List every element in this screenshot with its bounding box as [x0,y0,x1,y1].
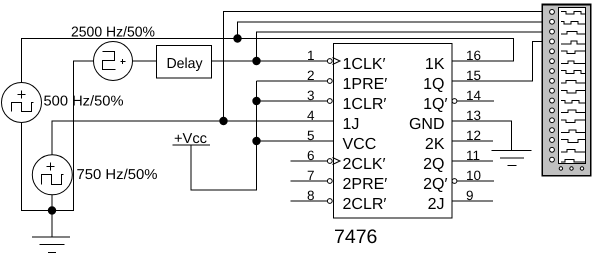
svg-text:2Q: 2Q [423,156,444,173]
svg-text:5: 5 [307,128,315,143]
delay block A1 [157,46,212,79]
svg-text:2: 2 [307,68,315,83]
trace ch7 [561,71,585,74]
analyzer terminal ch3 [550,29,555,34]
svg-text:1CLR′: 1CLR′ [343,96,387,113]
Vcc bar [173,144,211,146]
wire ch2 stub [238,22,542,39]
svg-text:7476: 7476 [334,226,377,248]
svg-text:16: 16 [466,48,481,63]
logic analyzer U2 [542,5,591,176]
wire bus 750/1J to ch1 [224,12,542,122]
trace ch3 [561,31,585,34]
analyzer terminal ch2 [550,19,555,24]
analyzer terminal ch6 [550,59,555,64]
pin numbers [307,48,482,203]
bubble pin8 [327,199,332,204]
svg-text:VCC: VCC [343,136,377,153]
analyzer clock terminal 2 [570,167,573,170]
node dot A (net1/ch2) [233,34,241,42]
bubble pin1 [327,59,332,64]
trace ch5 [561,51,585,54]
trace ch10 [561,100,585,103]
svg-text:9: 9 [466,188,474,203]
clock source V2 500Hz [2,83,42,123]
node dot F (ground jct) [48,206,56,214]
svg-text:3: 3 [307,88,315,103]
analyzer terminal ch10 [550,98,555,103]
trace ch13 [561,130,585,133]
clock arrow pin6 [333,158,341,165]
svg-text:2Q′: 2Q′ [423,176,447,193]
pin bubbles left [327,59,457,204]
svg-text:10: 10 [466,168,481,183]
svg-text:11: 11 [466,148,480,163]
svg-text:12: 12 [466,128,481,143]
svg-text:7: 7 [307,168,315,183]
analyzer terminals [550,10,555,163]
wire pin10 stub [457,180,494,182]
clock source V3 750Hz [32,155,72,195]
analyzer terminal ch9 [550,88,555,93]
trace ch11 [561,110,585,113]
analyzer terminal ch11 [550,108,555,113]
clock arrow pin1 [333,58,341,65]
svg-text:1J: 1J [343,116,360,133]
analyzer terminal ch8 [550,78,555,83]
wire pin12 stub [452,140,493,142]
wire pin14 stub [457,100,494,102]
wire 2500 left loop [22,61,94,211]
analyzer terminal ch13 [550,128,555,133]
trace ch12 [561,120,585,123]
analyzer terminal ch5 [550,49,555,54]
svg-text:750 Hz/50%: 750 Hz/50% [77,167,158,183]
analyzer terminal ch14 [550,138,555,143]
trace ch4 [561,41,585,44]
trace ch1 [561,12,585,15]
trace ch6 [561,61,585,64]
svg-text:4: 4 [307,108,315,123]
svg-text:2K: 2K [425,136,445,153]
wire 1J net [52,121,334,155]
trace ch15 [561,150,585,153]
svg-text:6: 6 [307,148,315,163]
bubble pin2 [327,79,332,84]
analyzer terminal ch1 [550,10,555,15]
bubble pin3 [327,99,332,104]
analyzer clock terminal 3 [580,167,583,170]
analyzer terminal ch15 [550,147,555,152]
svg-text:500 Hz/50%: 500 Hz/50% [44,94,124,110]
svg-text:1PRE′: 1PRE′ [343,76,388,93]
trace ch14 [561,140,585,143]
analyzer bottom terminals [559,167,584,170]
bubble pin6 [327,159,332,164]
trace ch8 [561,81,585,84]
svg-text:14: 14 [466,88,482,103]
svg-text:2J: 2J [428,196,445,213]
node dot B (bus/1J) [219,117,227,125]
svg-text:1: 1 [307,48,315,63]
svg-text:13: 13 [466,108,481,123]
bubble pin10 [452,179,457,184]
wire pin15 1Q to ch4 [452,42,542,82]
wire 750 bottom [51,195,53,211]
analyzer terminal ch7 [550,69,555,74]
node dot D (pin3 net) [252,97,260,105]
wire pin7 stub [291,180,328,182]
wire ch3 riser [257,32,542,61]
wire PRE/CLR/VCC net [191,81,334,190]
svg-text:1Q′: 1Q′ [423,96,447,113]
ground GND2 [492,151,532,166]
trace ch2 [561,21,585,24]
analyzer clock terminal 1 [559,167,562,170]
wire delay out to 1CLK [212,60,328,62]
svg-text:Delay: Delay [167,56,204,72]
svg-text:2CLR′: 2CLR′ [343,196,387,213]
analyzer traces [561,12,585,162]
wire pin13 GND [452,121,512,151]
node dot C (delay/ch3) [252,57,260,65]
svg-text:2PRE′: 2PRE′ [343,176,388,193]
trace ch9 [561,90,585,93]
bubble pin7 [327,179,332,184]
ground GND1 [32,211,70,253]
svg-text:8: 8 [307,188,315,203]
svg-text:2CLK′: 2CLK′ [343,156,386,173]
svg-text:15: 15 [466,68,481,83]
wire pin9 stub [452,200,493,202]
svg-text:1CLK′: 1CLK′ [343,56,386,73]
node dot E (pin5 net) [252,137,260,145]
wire net1 500Hz-top to 1K [22,39,514,84]
wire pin8 stub [291,200,328,202]
wire pin11 stub [452,160,493,162]
IC U1 7476 [334,44,453,249]
wire pin6 stub [291,160,328,162]
clock source V1 2500Hz [94,42,133,81]
svg-text:2500 Hz/50%: 2500 Hz/50% [71,25,155,41]
svg-text:+Vcc: +Vcc [174,131,207,147]
trace ch16 [561,159,585,162]
svg-text:1Q: 1Q [423,76,444,93]
svg-text:GND: GND [409,116,445,133]
wire 2500 right to delay [133,60,157,62]
pin labels inside chip [343,56,448,213]
analyzer terminal ch4 [550,39,555,44]
analyzer terminal ch12 [550,118,555,123]
analyzer terminal ch16 [550,157,555,162]
svg-text:1K: 1K [425,56,445,73]
bubble pin14 [452,99,457,104]
